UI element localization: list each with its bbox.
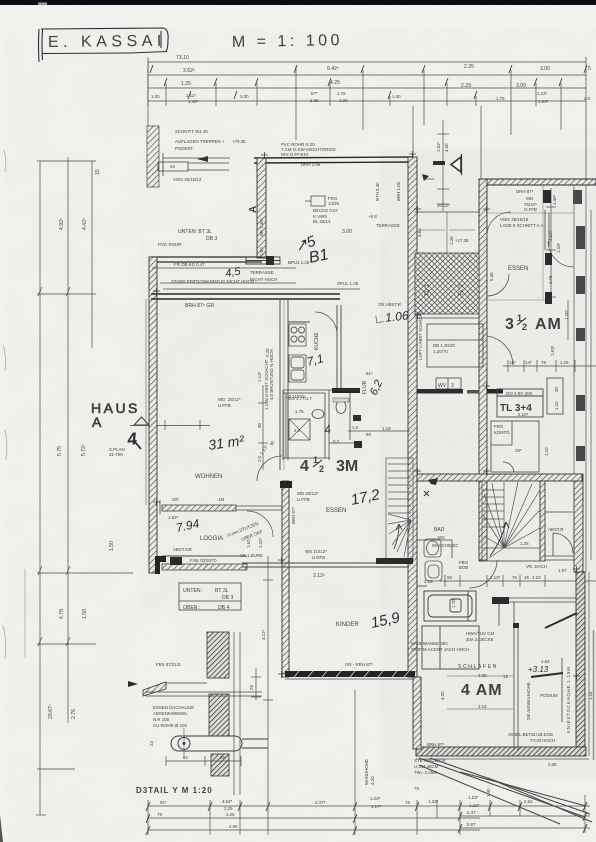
winder stair fan	[482, 481, 540, 561]
svg-text:1.75: 1.75	[496, 96, 505, 101]
terrace annotation lines	[152, 268, 360, 289]
right wall lower hatched continuous	[574, 474, 583, 572]
svg-text:1.23⁵: 1.23⁵	[469, 803, 480, 808]
corridor dim line	[348, 430, 410, 432]
closet room below bath	[422, 626, 479, 669]
kinder north wall	[242, 563, 409, 567]
TL 3+4 room box	[497, 389, 543, 417]
second WC fixtures	[336, 401, 346, 414]
toilet	[425, 561, 442, 581]
svg-text:2.25: 2.25	[310, 98, 319, 103]
toilet	[312, 410, 324, 419]
top dimension chain group	[148, 57, 586, 106]
left margin labels (rotated)	[48, 169, 115, 719]
misc connector verticals bottom-left detail	[234, 632, 261, 795]
door arc in essen top right	[548, 241, 574, 267]
right wall window piers	[573, 190, 585, 461]
WC room walls	[283, 390, 360, 460]
svg-text:2.76: 2.76	[71, 709, 77, 719]
bottom dim tick arrows	[146, 802, 587, 835]
interior dim line wohnen	[165, 385, 268, 470]
west stair arrow	[394, 524, 402, 549]
FRG note block	[305, 196, 325, 206]
top bar light notch	[38, 3, 47, 6]
small room next to stair	[427, 324, 483, 367]
stair shaft top line	[415, 211, 480, 213]
svg-text:1.23⁵: 1.23⁵	[468, 795, 479, 800]
detail arrow	[197, 156, 208, 162]
svg-text:2.62: 2.62	[524, 799, 533, 804]
DETAIL: hatched chimney column	[207, 632, 229, 678]
dark wall stub right of spine	[487, 389, 503, 394]
svg-text:ABSENKWINKEL: ABSENKWINKEL	[153, 711, 188, 716]
stair arrow curve	[490, 522, 509, 556]
svg-text:E. KASSAI: E. KASSAI	[48, 33, 166, 51]
svg-text:62: 62	[183, 755, 188, 760]
svg-text:20.67⁵: 20.67⁵	[48, 704, 54, 719]
svg-text:5: 5	[588, 66, 591, 72]
wall: wohnen top wall	[151, 294, 340, 299]
svg-text:4.92⁵: 4.92⁵	[59, 218, 65, 230]
apartment label 4 1/2 3M	[300, 455, 358, 475]
DETAIL: small dims	[166, 756, 241, 766]
svg-text:WANDHOHE: WANDHOHE	[364, 759, 369, 785]
bad door arc	[469, 560, 497, 588]
DETAIL: sloped beam	[143, 682, 166, 696]
svg-text:4.50: 4.50	[229, 824, 238, 829]
svg-text:87⁵: 87⁵	[311, 91, 318, 96]
svg-text:1.23⁵: 1.23⁵	[370, 796, 381, 801]
svg-text:PODEST: PODEST	[175, 146, 193, 151]
vertical dim line above stair shaft	[437, 120, 449, 211]
kitchen fixtures: stove 4 burners	[289, 324, 306, 346]
svg-text:91⁵: 91⁵	[160, 800, 167, 805]
stair run divider lines	[420, 212, 475, 253]
svg-text:3.00: 3.00	[240, 94, 249, 99]
right wall face lines	[574, 185, 591, 572]
svg-text:25: 25	[249, 685, 254, 690]
svg-text:4.40⁵: 4.40⁵	[188, 99, 199, 104]
svg-text:1.75: 1.75	[337, 91, 346, 96]
stair section detail hatched wall top-left	[147, 126, 159, 187]
svg-text:23: 23	[149, 741, 154, 746]
wall: top wall right unit	[481, 179, 596, 185]
svg-text:2.25: 2.25	[224, 806, 233, 811]
right interior dim line	[546, 188, 568, 340]
hollow triangle marker	[451, 157, 461, 172]
svg-text:DECKE 0.07: DECKE 0.07	[313, 208, 338, 213]
kinder south wall dark	[285, 671, 415, 677]
svg-text:5.87: 5.87	[467, 822, 476, 827]
svg-text:79: 79	[157, 812, 162, 817]
loggia south parapet	[162, 564, 247, 570]
svg-text:1.00: 1.00	[392, 94, 401, 99]
svg-text:3.62⁵: 3.62⁵	[183, 68, 195, 74]
svg-text:3.00: 3.00	[540, 66, 550, 72]
svg-text:1.40: 1.40	[486, 788, 491, 797]
junction tick marks	[153, 151, 580, 680]
west stair south dark wall	[376, 558, 413, 564]
stair lattice TL1 TL2	[415, 253, 479, 314]
wall: left wall of upper-left unit (with section A mark)	[257, 158, 266, 258]
WV 3 label box	[436, 378, 461, 389]
svg-text:1.23⁵: 1.23⁵	[537, 91, 548, 96]
roof section diagonals	[419, 758, 592, 824]
svg-text:N.R 100: N.R 100	[153, 717, 170, 722]
svg-text:3.00: 3.00	[342, 229, 352, 235]
wall: bottom wall of bottom-right unit	[416, 747, 586, 756]
svg-text:14/25: 14/25	[328, 201, 340, 206]
svg-text:ESSEN DACHAULIE: ESSEN DACHAULIE	[153, 705, 194, 710]
top scanner black bar	[0, 0, 596, 5]
right unit inner faint lines	[487, 185, 574, 300]
svg-text:UNTEN: BT 3L: UNTEN: BT 3L	[178, 229, 212, 235]
right-half scan darkening veil	[380, 150, 596, 780]
svg-text:AUFLAGEN TREPPEN +: AUFLAGEN TREPPEN +	[175, 139, 225, 144]
svg-text:4.25: 4.25	[226, 812, 235, 817]
west winder stair shaft	[386, 458, 413, 560]
svg-text:5.42⁵: 5.42⁵	[327, 66, 339, 72]
dim line above schlafen	[440, 575, 596, 587]
right page edge faint line	[593, 630, 595, 760]
svg-text:VWS 25/15/12: VWS 25/15/12	[173, 177, 202, 182]
svg-text:SCHNITT W1 20: SCHNITT W1 20	[175, 129, 208, 134]
svg-text:BTH 5.40: BTH 5.40	[375, 182, 380, 201]
svg-text:A: A	[248, 206, 259, 213]
wall: terrace parapet upper-left	[151, 257, 262, 262]
title box E.KASSAI	[39, 28, 169, 62]
door arc to corridor	[487, 336, 513, 365]
svg-text:1.32⁵: 1.32⁵	[428, 799, 439, 804]
duct shaft right of TL3+4	[547, 378, 563, 414]
door arc wohnen to essen	[257, 456, 282, 481]
svg-text:D3TAIL Y M 1:20: D3TAIL Y M 1:20	[136, 786, 213, 795]
top dimension tick arrows	[150, 65, 587, 99]
vertical connectors from top dim chain	[148, 62, 586, 180]
wall: spine continues to bottom unit	[413, 677, 421, 749]
svg-text:GR - RRH 87⁵: GR - RRH 87⁵	[345, 662, 373, 667]
svg-text:4.25: 4.25	[330, 80, 340, 86]
svg-text:DIN O.FFJHG: DIN O.FFJHG	[281, 152, 309, 157]
wall: kitchen west wall	[280, 299, 341, 470]
wohnen door arc on south	[247, 511, 273, 537]
dark pier on schlafen top wall	[492, 597, 509, 604]
svg-text:1.00: 1.00	[339, 98, 348, 103]
DETAIL: pipe pill	[171, 736, 268, 751]
stair wall mid	[540, 481, 545, 561]
bathtub	[424, 591, 476, 621]
paper blotch texture	[60, 100, 596, 820]
wall: main left wall of building	[149, 257, 157, 573]
svg-text:CU-ROHR Ø 100: CU-ROHR Ø 100	[153, 723, 187, 728]
svg-text:1.25: 1.25	[181, 81, 191, 87]
svg-text:+6.8: +6.8	[368, 214, 377, 219]
wall: mid spine wall vertical	[408, 157, 417, 677]
shower with cross	[289, 419, 310, 440]
svg-text:4.78: 4.78	[59, 609, 65, 619]
svg-text:75: 75	[405, 800, 410, 805]
svg-text:31-709: 31-709	[109, 452, 123, 457]
svg-text:4.42⁵: 4.42⁵	[82, 218, 88, 230]
svg-text:4.12⁵: 4.12⁵	[261, 629, 266, 640]
svg-text:5.37: 5.37	[467, 810, 476, 815]
left margin dimension lines	[36, 157, 133, 815]
svg-text:25: 25	[220, 755, 225, 760]
wall: dark wall south of kitchen	[332, 388, 360, 393]
svg-text:M = 1: 100: M = 1: 100	[232, 32, 343, 51]
svg-text:2.25: 2.25	[464, 64, 474, 70]
bottom-left page edge sliver	[0, 815, 3, 842]
svg-text:1.50: 1.50	[109, 541, 115, 551]
wall: stair shaft right wall	[479, 179, 487, 561]
faint page-left scan marks	[3, 150, 25, 659]
hand stroke corrections	[545, 613, 577, 628]
pen blob near bad door	[428, 478, 438, 485]
washbasin	[424, 539, 441, 557]
svg-text:2.29: 2.29	[461, 83, 471, 89]
loggia SW dark corner	[155, 556, 166, 574]
bad door + walls	[417, 540, 487, 586]
svg-text:76: 76	[414, 786, 419, 791]
svg-text:15: 15	[95, 169, 101, 175]
wall: right outer hatched wall of bottom unit	[576, 572, 585, 754]
svg-text:A: A	[92, 414, 102, 430]
svg-text:BL 25/13: BL 25/13	[313, 219, 331, 224]
svg-text:1.50: 1.50	[82, 609, 88, 619]
kitchen fixtures: sink double basin	[289, 355, 306, 382]
apartment label 3 1/2 AM	[505, 313, 562, 333]
svg-text:+70.35: +70.35	[232, 139, 246, 144]
small room below TL3+4	[491, 421, 539, 472]
UNTEN/OBEN note box	[179, 583, 241, 610]
svg-text:1.17⁵: 1.17⁵	[371, 804, 382, 809]
svg-text:1.23⁵: 1.23⁵	[538, 99, 549, 104]
center dim vertical line	[263, 556, 273, 800]
svg-text:1.00: 1.00	[151, 94, 160, 99]
svg-text:KINDER: KINDER	[336, 622, 359, 628]
svg-text:73.10: 73.10	[176, 55, 189, 61]
right unit window sill marks	[545, 210, 549, 250]
svg-text:2.37⁵: 2.37⁵	[315, 800, 326, 805]
bottom dimension chain	[148, 690, 590, 835]
schlafen interior walls	[492, 598, 576, 750]
svg-text:FBS 87/21/3: FBS 87/21/3	[156, 662, 181, 667]
svg-text:45: 45	[170, 164, 175, 169]
dark mark DRW	[433, 161, 445, 165]
wall: kinder west wall	[282, 481, 289, 677]
landing hatched wall above winder stair	[417, 474, 582, 481]
dim line right of 3.5AM	[503, 360, 596, 372]
svg-text:4.20: 4.20	[370, 776, 375, 785]
top dimension labels	[151, 55, 591, 104]
svg-text:2.0: 2.0	[584, 96, 591, 101]
svg-text:5.75: 5.75	[57, 446, 63, 456]
svg-text:BR 2.38⁵: BR 2.38⁵	[259, 218, 264, 236]
svg-text:3.62⁵: 3.62⁵	[222, 799, 233, 804]
svg-text:3.00: 3.00	[516, 83, 526, 89]
stair section detail lines	[158, 153, 230, 176]
kitchen door arc	[315, 312, 337, 334]
wc south dark block	[354, 441, 362, 448]
inner face line along left wall	[145, 299, 147, 505]
svg-text:5.72⁵: 5.72⁵	[81, 444, 87, 456]
wall: top wall of upper-left unit	[254, 157, 413, 163]
HAUS A north triangle on line	[134, 417, 149, 425]
small pen arrow below DRW	[422, 174, 429, 181]
svg-text:1.11⁵: 1.11⁵	[186, 93, 196, 98]
terrace wall window detail	[246, 257, 280, 264]
wohnen south window band	[162, 505, 236, 511]
